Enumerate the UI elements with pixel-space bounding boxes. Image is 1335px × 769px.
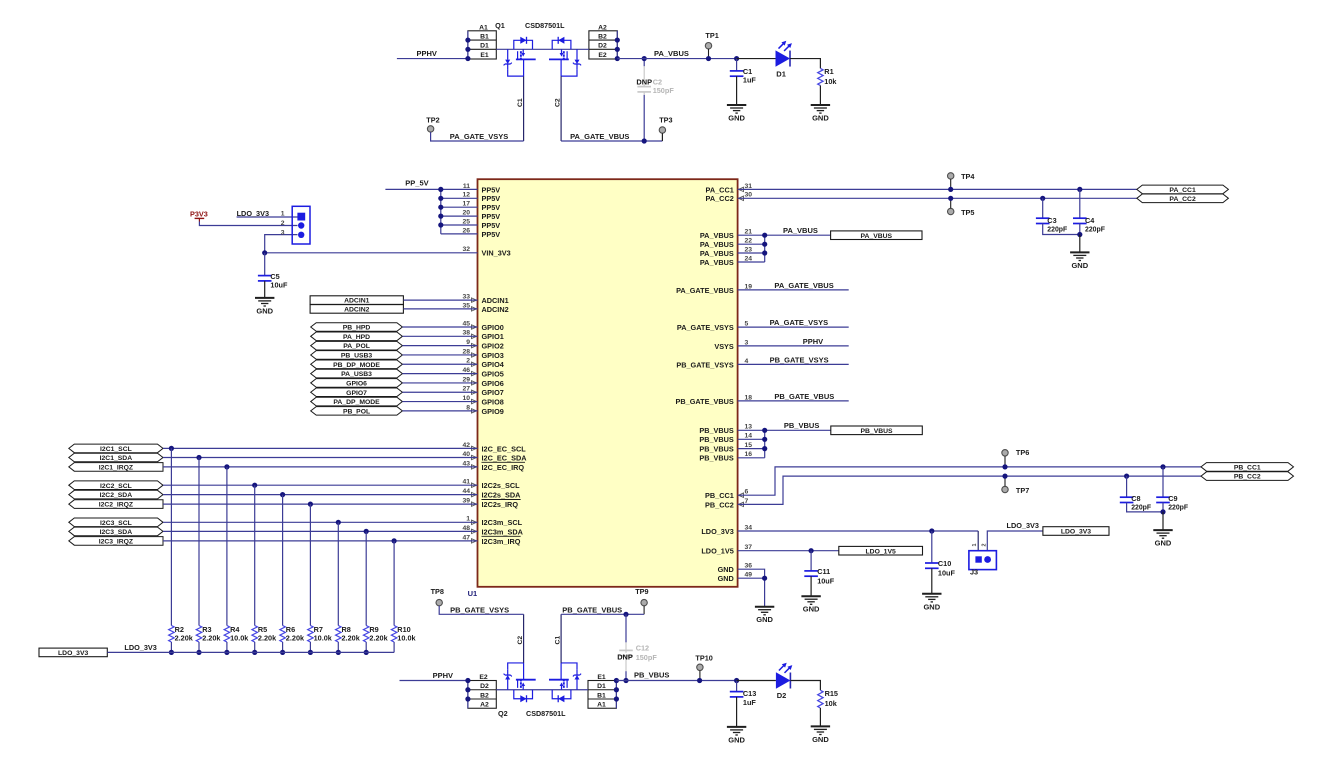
wire C1 to LED D1 xyxy=(737,58,776,60)
svg-text:PB_GATE_VSYS: PB_GATE_VSYS xyxy=(450,606,509,615)
junction Q1 B2 xyxy=(615,37,620,42)
port GPIO6 xyxy=(311,379,403,388)
svg-text:10: 10 xyxy=(462,395,470,402)
U1 pin 43 I2C_EC_IRQ name+number xyxy=(462,460,525,472)
transistor Q1 FET B (with body diode) xyxy=(549,37,581,76)
test point TP4 xyxy=(948,172,976,189)
svg-text:B1: B1 xyxy=(480,33,489,40)
IC U1 refdes label xyxy=(468,589,478,598)
junction C3/C4 gnd xyxy=(1077,232,1082,237)
svg-text:Q2: Q2 xyxy=(498,709,508,718)
svg-text:A2: A2 xyxy=(480,702,489,709)
junction I2C2_SDA/pullup xyxy=(280,492,285,497)
svg-text:C12: C12 xyxy=(636,643,649,652)
U1 pin 32 VIN_3V3 name+number xyxy=(462,246,510,258)
svg-text:I2C2_SCL: I2C2_SCL xyxy=(100,483,132,490)
wire D1 to R1 xyxy=(790,59,820,69)
wire PA_VBUS pin22 xyxy=(738,243,765,245)
svg-text:PPHV: PPHV xyxy=(433,671,453,680)
svg-text:D1: D1 xyxy=(480,43,489,50)
junction PP5V bus xyxy=(438,187,443,192)
resistor R7 10.0k xyxy=(308,625,333,653)
wire C2 gate line Q2 xyxy=(517,614,524,663)
svg-text:ADCIN1: ADCIN1 xyxy=(344,298,370,305)
svg-text:44: 44 xyxy=(462,488,470,495)
svg-text:PB_VBUS: PB_VBUS xyxy=(699,454,734,463)
svg-text:PPHV: PPHV xyxy=(417,49,437,58)
wire PB_VBUS pin13 + label xyxy=(738,421,831,430)
junction Q2 B2 xyxy=(465,696,470,701)
svg-text:I2C1_SCL: I2C1_SCL xyxy=(100,446,132,453)
U1 pin 10 GPIO8 name+number xyxy=(462,395,503,407)
svg-text:GND: GND xyxy=(812,735,829,744)
svg-text:1: 1 xyxy=(466,516,470,523)
svg-text:C4: C4 xyxy=(1085,216,1095,225)
svg-text:R8: R8 xyxy=(342,625,351,634)
svg-text:48: 48 xyxy=(462,525,470,532)
ground below C11 xyxy=(801,596,820,614)
svg-text:C2: C2 xyxy=(554,98,561,107)
net label LDO_3V3 wire pin1 xyxy=(237,209,298,218)
resistor R2 2.20k xyxy=(169,625,194,653)
resistor R8 2.20k xyxy=(336,625,361,653)
junction I2C3_IRQZ/pullup xyxy=(392,538,397,543)
svg-text:PP5V: PP5V xyxy=(482,203,501,212)
port I2C2_IRQZ xyxy=(69,500,163,509)
wire stub PB_GATE_VSYS xyxy=(738,355,849,364)
power port P3V3 xyxy=(190,210,208,222)
wire C1 gate line Q2 xyxy=(554,614,561,663)
svg-text:LDO_3V3: LDO_3V3 xyxy=(1007,521,1039,530)
U1 pin 30 PA_CC2 name+number xyxy=(706,192,753,204)
svg-text:1: 1 xyxy=(281,211,285,218)
svg-text:J3: J3 xyxy=(970,568,978,577)
wire VIN_3V3 pin 32 xyxy=(265,252,478,254)
junction C10 xyxy=(929,528,934,533)
U1 pin 19 PA_GATE_VBUS name+number xyxy=(676,283,752,295)
junction C2 bottom xyxy=(642,138,647,143)
wire GND pin36 xyxy=(738,569,765,607)
svg-text:PB_POL: PB_POL xyxy=(343,408,370,415)
wire PB_USB3 to GPIO pin xyxy=(402,354,477,356)
junction I2C2_SCL/pullup xyxy=(252,483,257,488)
junction C9 xyxy=(1160,464,1165,469)
svg-text:TP2: TP2 xyxy=(426,116,439,125)
wire pullup vertical R6 xyxy=(282,495,284,626)
svg-text:C9: C9 xyxy=(1168,494,1177,503)
junction PP5V bus xyxy=(438,222,443,227)
junction C12 top xyxy=(623,612,628,617)
port I2C3_SDA xyxy=(69,527,163,536)
net label PA_VBUS box xyxy=(831,231,922,240)
resistor R1 10k xyxy=(818,67,838,105)
U1 pin 31 PA_CC1 name+number xyxy=(706,183,753,195)
svg-text:10k: 10k xyxy=(825,699,838,708)
svg-text:R3: R3 xyxy=(202,625,211,634)
svg-text:150pF: 150pF xyxy=(636,653,658,662)
svg-text:31: 31 xyxy=(745,183,753,190)
ground below R1 xyxy=(811,105,830,123)
svg-text:10uF: 10uF xyxy=(938,569,956,578)
svg-text:28: 28 xyxy=(462,348,470,355)
svg-text:PB_CC1: PB_CC1 xyxy=(705,491,734,500)
svg-text:GPIO2: GPIO2 xyxy=(482,342,504,351)
junction C3 xyxy=(1040,196,1045,201)
U1 pin 49 GND name+number xyxy=(718,572,753,584)
ground below C1 xyxy=(727,105,746,123)
ground below C13 xyxy=(727,727,746,745)
svg-text:PB_HPD: PB_HPD xyxy=(343,325,371,332)
U1 pin 15 PB_VBUS name+number xyxy=(699,442,752,454)
svg-text:29: 29 xyxy=(462,376,470,383)
wire PB_VBUS pin14 xyxy=(738,438,765,440)
svg-text:I2C3m_SDA: I2C3m_SDA xyxy=(482,527,524,536)
svg-text:C3: C3 xyxy=(1047,216,1056,225)
wire D2 to R15 xyxy=(790,681,820,691)
PB_VBUS vertical bus xyxy=(764,430,766,458)
svg-text:A2: A2 xyxy=(598,25,607,32)
port I2C1_SDA xyxy=(69,453,163,462)
svg-text:GPIO9: GPIO9 xyxy=(482,407,504,416)
U1 pin 13 PB_VBUS name+number xyxy=(699,424,752,436)
svg-text:CSD87501L: CSD87501L xyxy=(525,21,565,30)
wire C4 to ground xyxy=(1079,235,1081,253)
svg-text:46: 46 xyxy=(462,367,470,374)
svg-text:C5: C5 xyxy=(270,272,279,281)
wire J3 pin2 to label xyxy=(987,531,1043,551)
junction I2C3_SDA/pullup xyxy=(364,529,369,534)
svg-text:TP8: TP8 xyxy=(431,587,444,596)
transistor Q1 FET A (with body diode) xyxy=(504,37,536,76)
svg-text:PP5V: PP5V xyxy=(482,221,501,230)
U1 pin 8 GPIO9 name+number xyxy=(466,404,504,416)
U1 pin 16 PB_VBUS name+number xyxy=(699,451,752,463)
svg-text:220pF: 220pF xyxy=(1047,227,1067,234)
port I2C1_IRQZ xyxy=(69,463,163,472)
capacitor C13 1uF xyxy=(730,681,757,727)
svg-text:PA_CC1: PA_CC1 xyxy=(706,185,734,194)
svg-text:C10: C10 xyxy=(938,559,951,568)
junction R7 rail xyxy=(308,650,313,655)
IC U1 body xyxy=(478,179,738,587)
svg-text:GND: GND xyxy=(756,615,773,624)
junction C11 xyxy=(809,548,814,553)
capacitor C5 xyxy=(258,253,288,298)
U1 pin 41 I2C2s_SCL name+number xyxy=(462,479,520,491)
U1 pin 46 GPIO5 name+number xyxy=(462,367,503,379)
svg-text:E2: E2 xyxy=(598,52,607,59)
junction PP5V bus xyxy=(438,205,443,210)
junction C4 xyxy=(1077,187,1082,192)
svg-text:10k: 10k xyxy=(824,77,837,86)
capacitor C1 1uF xyxy=(730,59,757,105)
net label ADCIN2 xyxy=(310,305,403,314)
svg-text:PP_5V: PP_5V xyxy=(405,179,428,188)
U1 pin 7 PB_CC2 name+number xyxy=(705,498,748,510)
svg-text:GND: GND xyxy=(718,574,734,583)
svg-text:I2C2s_SCL: I2C2s_SCL xyxy=(482,481,521,490)
resistor R6 2.20k xyxy=(280,625,305,653)
wire PA_HPD to GPIO pin xyxy=(402,335,477,337)
net label PB_VBUS box xyxy=(831,426,923,435)
capacitor C8 220pF xyxy=(1120,476,1163,512)
svg-text:GPIO6: GPIO6 xyxy=(346,381,367,388)
capacitor C3 220pF xyxy=(1036,198,1080,234)
svg-text:PB_VBUS: PB_VBUS xyxy=(699,445,734,454)
svg-text:ADCIN2: ADCIN2 xyxy=(344,307,370,314)
ground below C3 C4 xyxy=(1070,252,1089,270)
svg-text:9: 9 xyxy=(466,339,470,346)
junction PA_VBUS 22 xyxy=(762,242,767,247)
svg-text:LDO_3V3: LDO_3V3 xyxy=(58,650,88,657)
port PB_CC2 xyxy=(1201,472,1294,481)
wire stub PA_GATE_VBUS xyxy=(738,281,849,290)
test point TP9 xyxy=(635,587,648,614)
svg-text:PB_DP_MODE: PB_DP_MODE xyxy=(333,362,380,369)
svg-text:47: 47 xyxy=(462,534,470,541)
junction R6 rail xyxy=(280,650,285,655)
svg-text:ADCIN2: ADCIN2 xyxy=(482,305,509,314)
svg-text:C13: C13 xyxy=(743,689,756,698)
svg-text:PA_GATE_VSYS: PA_GATE_VSYS xyxy=(450,132,509,141)
svg-text:10uF: 10uF xyxy=(270,281,288,290)
svg-text:VSYS: VSYS xyxy=(714,342,734,351)
svg-text:GPIO5: GPIO5 xyxy=(482,370,504,379)
svg-text:2.20k: 2.20k xyxy=(175,634,194,643)
svg-text:LDO_3V3: LDO_3V3 xyxy=(1061,529,1091,536)
svg-text:PA_VBUS: PA_VBUS xyxy=(654,49,689,58)
svg-text:8: 8 xyxy=(466,404,470,411)
svg-text:I2C2_SDA: I2C2_SDA xyxy=(100,492,133,499)
svg-text:33: 33 xyxy=(462,294,470,301)
svg-text:25: 25 xyxy=(462,218,470,225)
svg-text:4: 4 xyxy=(745,358,749,365)
svg-text:I2C3_IRQZ: I2C3_IRQZ xyxy=(99,539,133,546)
transistor Q1 left package box xyxy=(468,25,496,59)
U1 pin 40 I2C_EC_SDA name+number xyxy=(462,451,527,463)
junction Q1 E1 xyxy=(465,56,470,61)
svg-text:GPIO6: GPIO6 xyxy=(482,379,504,388)
net PPHV wire bottom xyxy=(400,671,468,680)
junction I2C1_SCL/pullup xyxy=(169,446,174,451)
svg-text:GPIO0: GPIO0 xyxy=(482,323,504,332)
junction C8/C9 gnd xyxy=(1160,509,1165,514)
svg-text:PA_VBUS: PA_VBUS xyxy=(700,249,734,258)
svg-text:PA_DP_MODE: PA_DP_MODE xyxy=(333,399,380,406)
port I2C2_SDA xyxy=(69,490,163,499)
junction C2 top xyxy=(642,56,647,61)
port I2C3_IRQZ xyxy=(69,537,163,546)
svg-text:I2C2s_SDA: I2C2s_SDA xyxy=(482,491,522,500)
port I2C2_SCL xyxy=(69,481,163,490)
junction PA_VBUS 23 xyxy=(762,250,767,255)
junction GND49 xyxy=(762,576,767,581)
svg-text:36: 36 xyxy=(745,563,753,570)
svg-text:C1: C1 xyxy=(517,98,524,107)
wire PA_USB3 to GPIO pin xyxy=(402,373,477,375)
svg-text:1uF: 1uF xyxy=(743,698,757,707)
junction Q2 E2 xyxy=(465,678,470,683)
svg-text:PB_VBUS: PB_VBUS xyxy=(634,671,669,680)
svg-text:TP3: TP3 xyxy=(659,116,672,125)
svg-text:TP4: TP4 xyxy=(961,172,975,181)
resistor R9 2.20k xyxy=(364,625,389,653)
wire pullup vertical R2 xyxy=(170,448,172,625)
net PP_5V wire xyxy=(385,179,440,190)
svg-text:C2: C2 xyxy=(653,77,662,86)
U1 pin 38 GPIO1 name+number xyxy=(462,330,503,342)
U1 pin 42 I2C_EC_SCL name+number xyxy=(462,442,526,454)
svg-text:PB_GATE_VSYS: PB_GATE_VSYS xyxy=(770,355,829,364)
svg-text:I2C3m_SCL: I2C3m_SCL xyxy=(482,518,523,527)
wire pullup vertical R10 xyxy=(393,541,395,626)
wire PB_HPD to GPIO pin xyxy=(402,326,477,328)
wire PA_GATE_VSYS xyxy=(431,132,524,141)
svg-text:I2C_EC_SDA: I2C_EC_SDA xyxy=(482,453,528,462)
U1 pin 29 GPIO6 name+number xyxy=(462,376,503,388)
net label LDO_1V5 box xyxy=(839,546,923,555)
svg-text:PA_VBUS: PA_VBUS xyxy=(700,240,734,249)
junction R8 rail xyxy=(336,650,341,655)
svg-text:A1: A1 xyxy=(479,25,488,32)
junction I2C1_IRQZ/pullup xyxy=(224,464,229,469)
svg-text:LDO_3V3: LDO_3V3 xyxy=(701,527,733,536)
svg-text:49: 49 xyxy=(745,572,753,579)
junction C13 xyxy=(734,678,739,683)
capacitor C2 DNP xyxy=(636,59,674,141)
wire PA_GATE_VBUS xyxy=(561,132,662,141)
junction R3 rail xyxy=(196,650,201,655)
wire stub PA_GATE_VSYS xyxy=(738,318,849,327)
U1 pin 3 VSYS name+number xyxy=(714,339,748,351)
wire GND pin49 xyxy=(738,577,765,579)
wire pullup vertical R8 xyxy=(337,522,339,625)
svg-text:PA_VBUS: PA_VBUS xyxy=(700,258,734,267)
svg-text:PB_VBUS: PB_VBUS xyxy=(860,428,893,435)
transistor Q2 FET B (with body diode) xyxy=(549,663,581,702)
svg-text:6: 6 xyxy=(745,489,749,496)
svg-text:E2: E2 xyxy=(479,674,488,681)
svg-text:R2: R2 xyxy=(175,625,184,634)
svg-text:PB_GATE_VSYS: PB_GATE_VSYS xyxy=(676,360,734,369)
wire PA_DP_MODE to GPIO pin xyxy=(402,401,477,403)
junction R5 rail xyxy=(252,650,257,655)
test point TP2 xyxy=(426,116,439,132)
junction R4 rail xyxy=(224,650,229,655)
transistor Q2 FET A (with body diode) xyxy=(504,663,536,702)
port I2C1_SCL xyxy=(69,444,163,453)
wire I2C1_SCL to U1 xyxy=(163,447,478,449)
svg-text:U1: U1 xyxy=(468,589,478,598)
port PB_HPD xyxy=(311,323,403,332)
wire I2C2_SCL to U1 xyxy=(163,484,478,486)
svg-text:B1: B1 xyxy=(597,692,606,699)
svg-text:1uF: 1uF xyxy=(743,76,757,85)
svg-text:PP5V: PP5V xyxy=(482,230,501,239)
U1 pin 28 GPIO3 name+number xyxy=(462,348,503,360)
svg-text:GND: GND xyxy=(1071,261,1088,270)
U1 pin 47 I2C3m_IRQ name+number xyxy=(462,534,520,546)
ground below C10 xyxy=(922,594,941,612)
svg-text:D1: D1 xyxy=(597,683,606,690)
wire C1 gate line Q1 xyxy=(517,76,524,141)
svg-text:27: 27 xyxy=(462,386,470,393)
svg-text:20: 20 xyxy=(462,210,470,217)
wire PB_GATE_VBUS bottom xyxy=(561,606,644,615)
wire PA_POL to GPIO pin xyxy=(402,345,477,347)
test point TP5 xyxy=(948,198,975,217)
resistor R5 2.20k xyxy=(252,625,277,653)
svg-text:I2C_EC_SCL: I2C_EC_SCL xyxy=(482,444,527,453)
U1 pin 36 GND name+number xyxy=(718,563,753,575)
wire PA_VBUS top xyxy=(617,49,737,59)
wire PB_DP_MODE to GPIO pin xyxy=(402,363,477,365)
capacitor C10 10uF xyxy=(925,531,955,594)
U1 pin 9 GPIO2 name+number xyxy=(466,339,504,351)
wire PP5V stub row 2 xyxy=(441,197,478,199)
U1 pin 45 GPIO0 name+number xyxy=(462,320,503,332)
junction TP6 xyxy=(1002,464,1007,469)
svg-text:10.0k: 10.0k xyxy=(397,634,416,643)
svg-text:21: 21 xyxy=(745,229,753,236)
svg-text:GPIO4: GPIO4 xyxy=(482,360,505,369)
wire PP5V stub row 6 xyxy=(441,233,478,235)
svg-text:TP10: TP10 xyxy=(695,653,712,662)
wire LDO_1V5 pin37 xyxy=(738,550,839,552)
svg-text:PB_GATE_VBUS: PB_GATE_VBUS xyxy=(562,606,622,615)
svg-text:GND: GND xyxy=(923,602,940,611)
wire PP5V stub row 1 xyxy=(441,188,478,190)
port PA_POL xyxy=(311,341,403,350)
transistor Q2 left package box xyxy=(468,674,496,709)
svg-text:2.20k: 2.20k xyxy=(286,634,305,643)
wire pullup vertical R9 xyxy=(365,531,367,625)
svg-text:PB_VBUS: PB_VBUS xyxy=(699,435,734,444)
svg-text:GND: GND xyxy=(1155,539,1172,548)
junction PA_VBUS 21 xyxy=(762,233,767,238)
svg-text:Q1: Q1 xyxy=(495,21,505,30)
PA_VBUS vertical bus xyxy=(764,235,766,262)
svg-text:R10: R10 xyxy=(397,625,410,634)
svg-text:10.0k: 10.0k xyxy=(314,634,333,643)
svg-text:45: 45 xyxy=(462,320,470,327)
svg-text:B2: B2 xyxy=(480,692,489,699)
wire LDO_3V3 pin34 xyxy=(738,521,1039,531)
svg-text:32: 32 xyxy=(462,246,470,253)
U1 pin 25 PP5V name+number xyxy=(462,218,500,230)
U1 pin 4 PB_GATE_VSYS name+number xyxy=(676,358,748,370)
wire pullup vertical R7 xyxy=(309,504,311,625)
wire PB_VBUS pin16 xyxy=(738,457,765,459)
wire pullup vertical R3 xyxy=(198,458,200,626)
svg-text:PPHV: PPHV xyxy=(803,337,823,346)
net label LDO_3V3 box right xyxy=(1043,527,1109,536)
U1 pin 37 LDO_1V5 name+number xyxy=(701,544,752,556)
port PA_CC2 xyxy=(1137,194,1229,203)
wire PB_CC2 net xyxy=(738,476,1201,504)
transistor Q1 right package box xyxy=(589,25,617,59)
wire GPIO7 to GPIO pin xyxy=(402,391,477,393)
svg-text:VIN_3V3: VIN_3V3 xyxy=(482,249,511,258)
U1 pin 39 I2C2s_IRQ name+number xyxy=(462,498,520,510)
svg-text:37: 37 xyxy=(745,544,753,551)
svg-text:LDO_1V5: LDO_1V5 xyxy=(701,547,733,556)
svg-text:PB_VBUS: PB_VBUS xyxy=(784,421,819,430)
svg-text:TP9: TP9 xyxy=(635,587,648,596)
svg-text:PA_CC1: PA_CC1 xyxy=(1169,187,1196,194)
port PB_POL xyxy=(311,407,403,416)
Q2 internal drain rail xyxy=(496,689,588,691)
